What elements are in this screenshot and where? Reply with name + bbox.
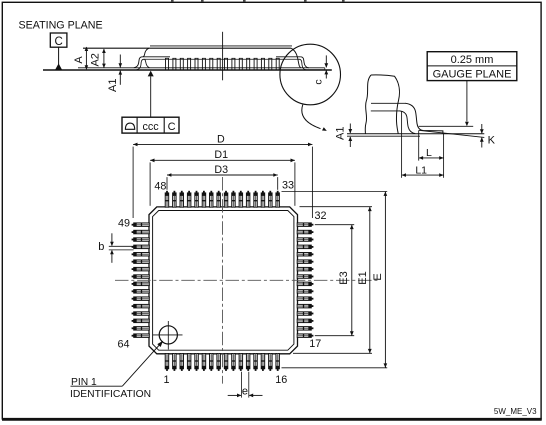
- svg-text:49: 49: [118, 218, 130, 230]
- dimension D1: [150, 149, 295, 206]
- lead foot bottom reference line: [347, 133, 484, 135]
- dimension E: [372, 192, 387, 368]
- dimension A2: [90, 49, 106, 68]
- dimension c (lead thickness): [313, 55, 329, 84]
- svg-text:D: D: [217, 133, 225, 145]
- dimension b: [98, 233, 133, 262]
- svg-text:0.25 mm: 0.25 mm: [451, 54, 494, 66]
- horizontal center line (dash-dot): [115, 279, 378, 281]
- side view vertical section line: [222, 32, 224, 81]
- E1 top extension line: [300, 206, 373, 208]
- lead gull-wing lower edge (gauge detail): [400, 111, 416, 134]
- curved leader from detail circle to gauge drawing: [302, 105, 321, 129]
- seating plane reference line (gauge detail): [347, 135, 420, 137]
- svg-text:A2: A2: [90, 53, 102, 66]
- ccc tolerance leader triangle on seating plane: [148, 71, 154, 77]
- gauge plane leader arrow: [466, 81, 468, 122]
- frame thick bottom line: [2, 418, 542, 421]
- dimension A1 (side view): [107, 55, 122, 92]
- side view body parting line: [144, 58, 299, 60]
- left pin row (pins 49 down to 64): [132, 223, 150, 338]
- svg-text:32: 32: [315, 210, 327, 222]
- svg-text:L1: L1: [415, 164, 427, 176]
- detail magnifier circle: [280, 44, 341, 105]
- dimension A: [73, 47, 88, 70]
- svg-text:GAUGE PLANE: GAUGE PLANE: [433, 69, 512, 81]
- top view package body octagon: [149, 207, 298, 354]
- svg-text:5W_ME_V3: 5W_ME_V3: [494, 407, 537, 416]
- svg-text:17: 17: [309, 338, 321, 350]
- top pin row (pins 48 down to 33): [165, 191, 279, 207]
- svg-text:PIN 1: PIN 1: [71, 377, 97, 388]
- dimension D3: [167, 164, 278, 190]
- dimension E3: [338, 225, 353, 336]
- svg-text:A: A: [73, 56, 85, 64]
- dimension D: [133, 133, 312, 218]
- dimension E1: [357, 207, 371, 354]
- body parting lines (gauge detail): [371, 102, 405, 104]
- E1 bottom extension line: [293, 352, 372, 354]
- svg-text:C: C: [168, 121, 176, 133]
- E bottom extension line: [282, 367, 388, 369]
- pin 1 identification circle: [153, 321, 183, 350]
- datum C leader line: [58, 47, 60, 64]
- svg-text:e: e: [242, 385, 248, 397]
- right pin row (pins 32 down to 17): [297, 223, 313, 338]
- feature control frame ccc C: [122, 117, 179, 133]
- side view right body silhouette: [291, 48, 301, 68]
- datum C box: [50, 33, 67, 48]
- svg-text:E: E: [372, 273, 384, 280]
- svg-text:D3: D3: [214, 164, 228, 176]
- top view body inner outline: [153, 211, 294, 351]
- ccc tolerance leader line: [150, 76, 152, 117]
- pin 1 identification leader: [71, 341, 164, 387]
- svg-text:E3: E3: [338, 271, 350, 284]
- gauge plane line: [419, 125, 474, 127]
- svg-text:c: c: [313, 79, 325, 84]
- svg-text:48: 48: [154, 180, 166, 192]
- side view left lead bend: [134, 57, 142, 68]
- datum C filled triangle on seating plane: [55, 63, 62, 70]
- side view left body silhouette: [143, 48, 149, 57]
- dimension L: [419, 131, 444, 161]
- svg-text:16: 16: [275, 374, 287, 386]
- seating plane line: [43, 69, 332, 71]
- dimension K: [480, 124, 496, 148]
- svg-text:L: L: [426, 147, 432, 159]
- svg-text:1: 1: [164, 374, 170, 386]
- E3 bottom extension line: [315, 335, 354, 337]
- side view right lead bend down to foot: [301, 57, 309, 68]
- vertical center line (dash-dot): [222, 177, 224, 384]
- gauge plane label box: [427, 52, 517, 81]
- svg-text:64: 64: [117, 339, 129, 351]
- sloped lead underside line (K angle): [419, 130, 485, 137]
- dimension e: [228, 372, 263, 398]
- svg-text:A1: A1: [335, 126, 347, 139]
- package body section with break lines (gauge detail): [365, 75, 371, 134]
- side view row of 16 leads: [165, 58, 280, 69]
- svg-text:ccc: ccc: [142, 121, 159, 133]
- svg-text:A1: A1: [107, 78, 119, 91]
- side view right foot tip: [324, 68, 326, 70]
- lead gull-wing upper edge (gauge detail): [405, 103, 443, 134]
- svg-text:b: b: [98, 241, 104, 253]
- svg-text:D1: D1: [214, 149, 228, 161]
- svg-text:33: 33: [282, 180, 294, 192]
- dimension L1: [402, 111, 444, 178]
- dimension A1 (gauge detail): [335, 124, 352, 148]
- E3 top extension line: [315, 224, 354, 226]
- cropped title text descenders at top edge: [171, 0, 174, 2]
- svg-text:SEATING PLANE: SEATING PLANE: [19, 20, 103, 32]
- svg-text:C: C: [54, 36, 62, 48]
- svg-text:K: K: [488, 135, 496, 147]
- side view body bottom / foot top line: [78, 67, 325, 69]
- svg-text:IDENTIFICATION: IDENTIFICATION: [70, 389, 151, 400]
- svg-text:E1: E1: [357, 271, 369, 284]
- bottom pin row (pins 1 to 16): [165, 354, 279, 371]
- E top extension line: [282, 191, 388, 193]
- side view body top lines: [150, 45, 292, 47]
